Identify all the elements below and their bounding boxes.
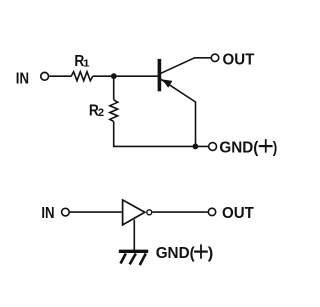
label IN (top circuit) <box>16 71 29 88</box>
node B junction dot (emitter to rail) <box>193 144 199 150</box>
terminal OUT (top circuit) <box>211 54 219 62</box>
svg-text:GND(: GND( <box>219 139 259 156</box>
label OUT (bottom circuit) <box>222 205 254 222</box>
svg-text:IN: IN <box>41 205 54 222</box>
svg-text:GND(: GND( <box>156 245 196 262</box>
wire R1 to node A <box>93 75 114 77</box>
terminal OUT (bottom circuit) <box>208 208 215 215</box>
plus symbol inside parens (bottom circuit) <box>194 244 208 258</box>
resistor R2 <box>110 100 118 122</box>
transistor Q1 emitter arrow (PNP, pointing into base) <box>162 79 172 87</box>
ground symbol hatch strokes <box>121 254 146 266</box>
node A junction dot <box>111 73 117 79</box>
label OUT (top circuit) <box>223 51 255 68</box>
label IN (bottom circuit) <box>41 205 54 222</box>
svg-text:): ) <box>273 139 278 156</box>
wire U1 output to OUT terminal <box>153 211 208 213</box>
svg-text:1: 1 <box>83 57 90 69</box>
closing paren (bottom circuit) <box>208 245 214 262</box>
transistor Q1 base bar <box>158 59 162 91</box>
ground rail wire <box>113 145 209 147</box>
ground symbol bar <box>119 250 148 253</box>
transistor Q1 collector lead <box>161 58 211 74</box>
plus symbol inside parens (top circuit) <box>259 139 273 153</box>
transistor Q1 emitter lead <box>161 79 196 146</box>
wire node A to R2 <box>113 76 115 100</box>
label R2 <box>89 103 104 120</box>
svg-text:): ) <box>208 245 214 262</box>
terminal IN (bottom circuit) <box>62 208 70 216</box>
terminal IN (top circuit) <box>41 72 49 80</box>
label R1 <box>74 53 89 70</box>
wire U1 to ground <box>133 220 135 250</box>
wire IN terminal to inverter U1 <box>69 211 122 213</box>
inverter U1 output bubble <box>147 210 152 215</box>
svg-text:OUT: OUT <box>222 205 254 222</box>
label GND( (bottom circuit) <box>156 245 196 262</box>
svg-text:OUT: OUT <box>223 51 255 68</box>
wire R2 to ground rail <box>113 122 115 147</box>
svg-text:IN: IN <box>16 71 29 88</box>
inverter U1 triangle <box>123 200 145 225</box>
terminal GND (top circuit) <box>209 143 217 151</box>
resistor R1 <box>71 72 93 81</box>
label GND( (top circuit) <box>219 139 259 156</box>
wire node A to Q1 base <box>114 75 158 77</box>
wire IN terminal to R1 <box>49 75 71 77</box>
svg-text:2: 2 <box>98 107 104 119</box>
closing paren (top circuit) <box>273 139 278 156</box>
